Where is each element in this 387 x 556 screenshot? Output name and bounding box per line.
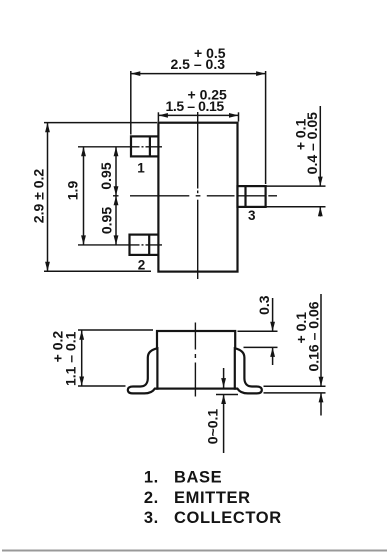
svg-text:2: 2 <box>138 258 146 273</box>
vertical centerline (side view) <box>194 323 196 397</box>
left gull-wing lead (side view) <box>128 348 158 393</box>
dimension 1.9 (pin 1 to pin 2 pitch) <box>65 147 86 245</box>
dimension 1.5 +0.25/-0.15 (body width) <box>158 86 238 121</box>
dimension 0.3 (lead shoulder drop) <box>238 295 278 365</box>
svg-text:1.9: 1.9 <box>65 181 81 201</box>
dimension 1.1 +0.2/-0.1 (body height, side view) <box>50 330 154 386</box>
svg-text:0~0.1: 0~0.1 <box>205 409 221 445</box>
svg-text:0.3: 0.3 <box>256 295 272 315</box>
svg-text:1.: 1. <box>144 469 159 487</box>
dimension 2.5 +0.5/-0.3 (overall width) <box>131 45 266 184</box>
package body (side view) <box>157 331 235 389</box>
svg-text:BASE: BASE <box>174 469 222 487</box>
svg-text:3.: 3. <box>144 509 159 527</box>
svg-text:0.4 – 0.05: 0.4 – 0.05 <box>304 112 320 174</box>
svg-text:0.16 – 0.06: 0.16 – 0.06 <box>306 301 322 371</box>
svg-text:2.: 2. <box>144 489 159 507</box>
dimension 2.9 +/-0.2 (body height) <box>31 123 158 272</box>
dimension 0~0.1 (standoff) <box>205 368 239 453</box>
svg-text:0.95: 0.95 <box>99 207 115 234</box>
package body (top view) <box>158 123 237 272</box>
dimension 0.95 (center to pin 2) <box>99 196 119 245</box>
svg-text:1: 1 <box>137 161 145 176</box>
dimension 0.4 +0.1/-0.05 (pin 3 lead width) <box>266 106 326 217</box>
svg-text:1.5 – 0.15: 1.5 – 0.15 <box>166 98 225 114</box>
pin 3 lead (top view) <box>238 186 266 207</box>
right gull-wing lead (side view) <box>235 348 262 393</box>
pin 2 centerline <box>78 244 162 246</box>
svg-text:2.5 – 0.3: 2.5 – 0.3 <box>171 56 226 72</box>
svg-text:2.9 ± 0.2: 2.9 ± 0.2 <box>31 169 47 224</box>
svg-text:COLLECTOR: COLLECTOR <box>174 509 282 527</box>
pin 1 centerline <box>78 146 162 148</box>
bottom separator rule <box>2 550 387 552</box>
dimension 0.16 +0.1/-0.06 (lead thickness) <box>264 294 326 416</box>
vertical centerline (top view) <box>197 112 199 279</box>
horizontal centerline through body and pin 3 <box>113 195 277 197</box>
svg-text:3: 3 <box>248 208 256 223</box>
svg-text:EMITTER: EMITTER <box>174 489 251 507</box>
pin 2 lead (top view) <box>130 235 159 255</box>
svg-text:1.1 – 0.1: 1.1 – 0.1 <box>63 331 79 386</box>
pin 1 lead (top view) <box>131 136 158 156</box>
dimension 0.95 (pin 1 to center) <box>98 147 118 245</box>
svg-text:0.95: 0.95 <box>98 162 114 189</box>
